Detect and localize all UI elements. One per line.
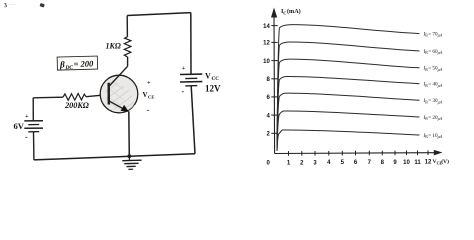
x tick 8 V [381, 151, 385, 166]
x tick 7 V [368, 151, 372, 166]
wire: base wire left segment (battery + to resistor RB) [33, 96, 63, 99]
x tick 9 V [393, 151, 397, 166]
svg-text:200KΩ: 200KΩ [64, 101, 89, 110]
svg-text:(mA): (mA) [287, 8, 301, 15]
curve IB = 70 uA (collector characteristic) [277, 25, 420, 151]
svg-text:8: 8 [266, 77, 270, 83]
svg-text:IB= 60μA: IB= 60μA [423, 49, 443, 55]
curve label IB = 60 uA [423, 49, 443, 55]
transistor Q1 emitter lead (slant with arrow) [109, 101, 128, 111]
label VCC [205, 72, 219, 83]
svg-text:-: - [25, 133, 28, 142]
curve label IB = 70 uA [423, 31, 443, 37]
transistor Q1 emitter arrowhead [121, 105, 129, 112]
wire: emitter vertical (transistor to ground node) [128, 111, 131, 156]
curve label IB = 20 uA [423, 115, 443, 121]
svg-text:6: 6 [266, 95, 270, 101]
svg-text:DC: DC [64, 65, 73, 71]
wire: bottom rail (ground rail) [34, 154, 195, 160]
wire: right vertical (top rail to battery VCC) [190, 13, 192, 75]
y tick 12 mA [263, 41, 278, 47]
curve IB = 20 uA (collector characteristic) [277, 111, 420, 151]
svg-text:12V: 12V [205, 84, 221, 94]
svg-text:-: - [182, 87, 185, 96]
svg-text:----: ---- [10, 2, 16, 7]
y tick 8 mA [266, 77, 277, 83]
svg-text:1: 1 [287, 160, 291, 166]
transistor Q1 (NPN) body circle with pencil shading [100, 75, 138, 113]
svg-text:V: V [143, 91, 148, 99]
scan mark: faint pencil smudge [10, 2, 45, 10]
svg-text:10: 10 [263, 59, 270, 65]
curve label IB = 50 uA [423, 66, 443, 72]
wire: resistor RC to top rail [126, 16, 128, 37]
curve label IB = 10 uA [423, 133, 443, 139]
wire: collector vertical (transistor to resistor RC) [127, 57, 129, 66]
svg-text:6V: 6V [14, 121, 25, 131]
svg-text:(V): (V) [441, 158, 449, 165]
x tick 12 V [425, 150, 432, 165]
battery VBB 6V (plates + polarity) [24, 113, 43, 141]
resistor RB 200K ohm (base resistor, zigzag) [63, 94, 86, 101]
svg-text:+: + [147, 80, 151, 87]
battery VCC (plates + polarity) [180, 65, 202, 96]
svg-text:2: 2 [266, 132, 270, 138]
svg-text:3: 3 [313, 160, 317, 166]
svg-text:2: 2 [300, 160, 304, 166]
value label 1K ohm [106, 42, 121, 51]
transistor Q1 collector lead (slant) [109, 66, 128, 86]
curve label IB = 30 uA [423, 98, 443, 104]
curve IB = 30 uA (collector characteristic) [277, 93, 420, 151]
x tick 6 V [354, 151, 358, 166]
y tick 4 mA [266, 113, 277, 119]
chart x-axis label VCE(V) [433, 158, 450, 165]
value label 12V [205, 84, 221, 94]
ground [122, 156, 141, 169]
svg-text:IB= 40μA: IB= 40μA [423, 82, 443, 88]
wire: battery VBB bottom to bottom-left corner [33, 132, 35, 160]
value label 200K ohm [64, 101, 89, 110]
svg-text:CE: CE [148, 95, 154, 100]
x tick 10 V [403, 151, 410, 166]
y tick 2 mA [266, 132, 277, 138]
value label 6V [14, 121, 25, 131]
curve IB = 60 uA (collector characteristic) [277, 42, 420, 151]
svg-text:IB= 10μA: IB= 10μA [423, 133, 443, 139]
svg-text:-: - [147, 106, 150, 115]
scan mark: handwritten digit 3 (top-left corner) [3, 2, 7, 9]
curve IB = 50 uA (collector characteristic) [277, 59, 420, 151]
svg-text:6: 6 [354, 160, 358, 166]
x tick 5 V [341, 151, 345, 166]
x tick 1 V [287, 151, 291, 166]
svg-text:+: + [25, 113, 29, 120]
svg-text:0: 0 [266, 161, 270, 167]
transistor Q1 base bar [107, 83, 110, 105]
svg-text:+: + [182, 65, 186, 72]
svg-text:9: 9 [393, 160, 397, 166]
svg-text:1KΩ: 1KΩ [106, 42, 121, 51]
svg-text:12: 12 [425, 160, 432, 166]
svg-text:C: C [283, 10, 286, 15]
y tick 14 mA [263, 24, 278, 30]
annotation box beta_DC = 200 [57, 56, 98, 71]
x tick 4 V [327, 151, 331, 166]
svg-text:3: 3 [3, 2, 7, 9]
svg-text:12: 12 [263, 41, 270, 47]
x tick 2 V [300, 151, 304, 166]
node: emitter junction dot [127, 154, 131, 158]
svg-text:V: V [205, 72, 211, 81]
svg-text:β: β [59, 59, 65, 69]
svg-text:11: 11 [414, 160, 421, 166]
svg-text:14: 14 [263, 24, 270, 30]
curve IB = 40 uA (collector characteristic) [277, 76, 420, 150]
svg-text:5: 5 [341, 160, 345, 166]
wire: top rail [127, 13, 191, 16]
svg-text:IB= 50μA: IB= 50μA [423, 66, 443, 72]
svg-text:4: 4 [266, 113, 270, 119]
svg-text:CC: CC [212, 76, 220, 82]
svg-text:IB= 70μA: IB= 70μA [423, 31, 443, 37]
wire: left vertical (battery VBB top) [32, 98, 34, 121]
wire: battery VCC bottom to bottom-right corner [191, 86, 195, 154]
svg-text:IB= 20μA: IB= 20μA [423, 115, 443, 121]
y tick 10 mA [263, 59, 278, 65]
x tick 3 V [313, 151, 317, 166]
label VCE with + and - polarity [143, 80, 155, 115]
svg-text:4: 4 [327, 160, 331, 166]
svg-text:= 200: = 200 [73, 58, 94, 69]
y tick 6 mA [266, 95, 277, 101]
svg-text:8: 8 [381, 160, 385, 166]
resistor RC 1K ohm (collector resistor, vertical zigzag) [124, 37, 131, 57]
curve IB = 10 uA (collector characteristic) [277, 130, 420, 151]
wire: base wire right segment (resistor RB to transistor base) [86, 95, 109, 97]
curve label IB = 40 uA [423, 82, 443, 88]
chart y-axis (IC axis) with arrowhead [271, 8, 277, 154]
svg-text:7: 7 [368, 160, 372, 166]
svg-text:IB= 30μA: IB= 30μA [423, 98, 443, 104]
x tick 11 V [414, 151, 421, 166]
svg-text:10: 10 [403, 160, 410, 166]
chart x-axis (VCE axis) with arrowhead [275, 150, 443, 156]
chart y-axis label IC (mA) [281, 8, 301, 15]
